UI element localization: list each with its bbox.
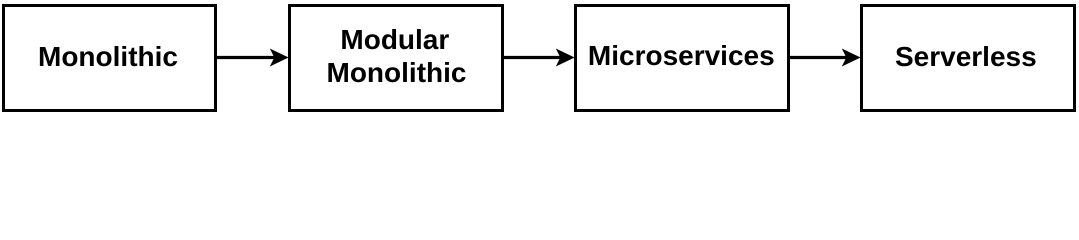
arrowhead arrow 2 [556,49,575,67]
label Serverless [858,43,1073,71]
box Modular Monolithic [288,4,504,113]
box Microservices [574,4,791,113]
arrowhead arrow 1 [270,49,289,67]
label Microservices [573,42,790,70]
arrowhead arrow 3 [842,49,861,67]
label Monolithic (line 2) [289,59,504,87]
wire shaft arrow 3 [790,56,847,59]
box Monolithic [2,4,217,113]
arrows (flow connectors) [0,0,1079,115]
wire shaft arrow 2 [504,56,562,59]
box Serverless [860,4,1076,113]
label Monolithic [1,43,215,71]
label Modular (line 1) [287,26,502,54]
wire shaft arrow 1 [216,56,275,59]
